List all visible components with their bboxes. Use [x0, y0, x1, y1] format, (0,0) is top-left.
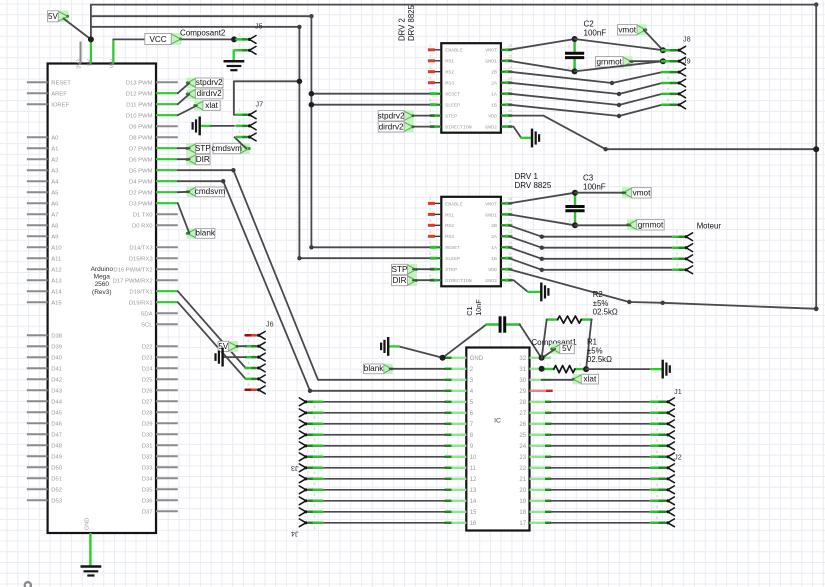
op-amp U2 DRV2 DRV8825 body	[428, 43, 512, 133]
svg-text:A15: A15	[51, 301, 62, 307]
svg-text:1B: 1B	[491, 256, 497, 262]
connector Moteur pin 3	[673, 252, 693, 263]
svg-text:1: 1	[656, 395, 658, 399]
connector J4 pin 4	[299, 486, 322, 497]
svg-text:5: 5	[314, 416, 316, 420]
node bend 1B	[617, 114, 621, 118]
connector Moteur pin 4	[673, 263, 693, 274]
svg-text:9: 9	[509, 120, 511, 124]
text J1 designator	[674, 387, 682, 396]
svg-text:DIRECTION: DIRECTION	[445, 278, 471, 284]
label VCC	[145, 33, 182, 45]
svg-text:13: 13	[508, 76, 512, 80]
connector J1 pin 5	[651, 439, 675, 450]
wire R2 right to R1 right node	[586, 320, 591, 370]
wire 5V label to junction	[64, 19, 91, 40]
label stpdrv2 at DRV2 STEP	[378, 110, 415, 121]
svg-text:9: 9	[509, 274, 511, 278]
connector J3 pin 4	[299, 420, 322, 431]
svg-text:15: 15	[508, 208, 512, 212]
svg-text:32: 32	[519, 356, 526, 362]
wire 5V riser	[90, 5, 92, 40]
svg-text:02.5kΩ: 02.5kΩ	[587, 355, 612, 364]
svg-text:1: 1	[314, 460, 316, 464]
connector J3 pin 5	[299, 409, 322, 420]
Arduino VIN top pin	[109, 39, 115, 68]
svg-text:D0 RX0: D0 RX0	[132, 224, 153, 230]
svg-text:grnmot: grnmot	[638, 220, 664, 229]
svg-text:D52: D52	[51, 488, 62, 494]
pin number C3	[568, 198, 570, 223]
svg-text:3: 3	[676, 252, 678, 256]
text J5 designator	[255, 22, 263, 31]
svg-text:GND: GND	[84, 518, 90, 530]
svg-text:14: 14	[508, 219, 512, 223]
connector J9 pin 2	[662, 65, 686, 76]
svg-text:2: 2	[248, 339, 250, 343]
node bend D4a	[221, 179, 225, 183]
svg-text:ENABLE: ENABLE	[445, 48, 463, 54]
svg-text:1: 1	[568, 45, 570, 49]
wire R2 left to pin32 node	[542, 320, 547, 359]
svg-text:STEP: STEP	[445, 114, 457, 120]
svg-text:A6: A6	[51, 202, 59, 208]
svg-text:D5 PWM: D5 PWM	[129, 169, 153, 175]
svg-text:1A: 1A	[491, 92, 497, 98]
svg-text:12: 12	[508, 241, 512, 245]
ground symbol DRV2 GND2	[532, 129, 539, 148]
wire D10 to xlat	[178, 106, 197, 116]
svg-text:J2: J2	[674, 453, 682, 462]
svg-text:STP: STP	[195, 144, 211, 153]
svg-text:6: 6	[656, 516, 658, 520]
svg-text:GND2: GND2	[485, 278, 497, 284]
svg-text:ENABLE: ENABLE	[445, 201, 463, 207]
svg-text:VMOT: VMOT	[485, 48, 497, 54]
node bend M2	[540, 246, 544, 250]
svg-text:±5%: ±5%	[587, 346, 603, 355]
svg-text:13: 13	[470, 488, 477, 494]
svg-text:RESET: RESET	[445, 92, 460, 98]
svg-text:3: 3	[239, 130, 241, 134]
node bend line B corner top	[309, 14, 313, 18]
wire DRV1 VDD to right edge	[509, 269, 816, 309]
svg-text:GND2: GND2	[485, 125, 497, 131]
svg-text:21: 21	[519, 477, 526, 483]
svg-text:3: 3	[314, 438, 316, 442]
wire D4 to IC pin4	[178, 181, 445, 391]
label blank at IC pin2	[364, 364, 394, 374]
IC left pin leads	[445, 356, 484, 527]
Arduino Mega 2560 (Rev3) title	[91, 266, 114, 296]
svg-text:2A: 2A	[491, 234, 497, 240]
connector J6 pin 6	[246, 383, 266, 394]
op-amp U1 Arduino Mega 2560 body	[48, 64, 156, 534]
svg-text:3: 3	[429, 65, 431, 69]
svg-text:D28: D28	[142, 411, 154, 417]
node junction at Arduino 5V	[88, 36, 94, 42]
svg-text:30: 30	[519, 378, 526, 384]
text DRV 2 / DRV 8825 designator (rotated)	[398, 5, 417, 41]
svg-text:6: 6	[429, 98, 431, 102]
svg-text:1: 1	[667, 54, 669, 58]
svg-text:A14: A14	[51, 290, 62, 296]
svg-text:A12: A12	[51, 268, 61, 274]
svg-text:D11 PWM: D11 PWM	[126, 103, 152, 109]
svg-text:MS2: MS2	[445, 223, 454, 229]
label cmdsvm at D2	[186, 187, 226, 197]
node bend M3	[540, 257, 544, 261]
wire net-C from 5V riser to DRV1 SLEEP	[91, 27, 434, 258]
svg-text:VDD: VDD	[488, 114, 497, 120]
svg-text:D12 PWM: D12 PWM	[126, 92, 153, 98]
connector J9 pin 5	[662, 98, 686, 109]
text Composant1	[531, 338, 577, 347]
svg-text:2: 2	[314, 449, 316, 453]
svg-text:xlat: xlat	[205, 101, 218, 110]
svg-text:D1 TX0: D1 TX0	[133, 213, 154, 219]
wire D7 to STP	[178, 147, 190, 149]
svg-text:5: 5	[667, 98, 669, 102]
svg-text:R1: R1	[587, 338, 597, 347]
svg-text:3: 3	[667, 76, 669, 80]
label STP at DRV1 STEP	[392, 264, 418, 275]
connector J7 pin 2	[237, 119, 257, 130]
svg-text:5: 5	[248, 372, 250, 376]
connector J2 pin 5	[651, 505, 675, 516]
svg-text:20: 20	[519, 488, 526, 494]
svg-text:D10 PWM: D10 PWM	[126, 114, 153, 120]
pin number C2	[568, 45, 570, 70]
svg-text:2: 2	[429, 54, 431, 58]
svg-text:22: 22	[519, 466, 526, 472]
wires J3/J4 to IC pins 5-16	[322, 402, 444, 523]
svg-text:14: 14	[470, 499, 477, 505]
svg-text:Arduino: Arduino	[91, 266, 114, 273]
wire C1 right to pin32 node	[520, 325, 542, 359]
wire C2 bottom to J9 pin1	[575, 61, 663, 71]
svg-text:A2: A2	[51, 158, 58, 164]
svg-text:100nF: 100nF	[584, 29, 607, 38]
svg-text:11: 11	[508, 252, 512, 256]
node junction J9 pin1	[660, 58, 666, 64]
label dirdrv2 at DRV2 DIRECTION	[378, 121, 414, 132]
svg-text:D36: D36	[142, 499, 154, 505]
node junction J8 pin	[660, 47, 666, 53]
wire DRV2 2B to J9 pin2	[509, 72, 662, 83]
connector J2 pin 1	[651, 461, 675, 472]
svg-text:D9 PWM: D9 PWM	[129, 125, 153, 131]
svg-text:8: 8	[429, 120, 431, 124]
capacitor C1	[486, 316, 519, 332]
wire D11 to dirdrv2	[178, 94, 190, 104]
node junction C2 top	[572, 36, 578, 42]
svg-text:6: 6	[429, 252, 431, 256]
text J9 designator	[683, 57, 691, 66]
capacitor C3	[565, 193, 584, 226]
svg-text:DIR: DIR	[196, 155, 210, 164]
connector J2 pin 4	[651, 494, 675, 505]
svg-text:2: 2	[656, 406, 658, 410]
text J4 designator (rotated)	[291, 530, 299, 539]
svg-text:5: 5	[656, 439, 658, 443]
text J6 designator	[266, 320, 274, 329]
svg-text:3: 3	[248, 350, 250, 354]
svg-text:SCL: SCL	[141, 323, 153, 329]
text Composant2	[180, 29, 226, 38]
wire R1 right to ground	[586, 368, 651, 370]
svg-text:7: 7	[429, 263, 431, 267]
label STP at D7	[185, 143, 211, 154]
wire J5 pin2 to ground	[234, 50, 237, 61]
svg-text:SDA: SDA	[140, 312, 152, 318]
connector J6 pin 1	[246, 328, 266, 339]
text DRV 1 / DRV 8825 designator	[515, 172, 552, 190]
connector Moteur pin 1	[673, 230, 693, 241]
wire 5V label to pin32 node	[542, 349, 556, 358]
svg-text:26: 26	[519, 422, 526, 428]
node junction R1 right	[583, 366, 589, 372]
wire 5V label to J6 pin2	[237, 345, 246, 347]
capacitor C2	[565, 39, 584, 71]
ground symbol near IC GND	[381, 337, 388, 356]
ground symbol R1	[663, 360, 670, 379]
connector J7 pin 3	[237, 130, 257, 141]
node bend at line B corner	[309, 245, 313, 249]
svg-text:1: 1	[239, 108, 241, 112]
svg-text:D31: D31	[142, 444, 153, 450]
svg-text:6: 6	[314, 405, 316, 409]
svg-text:5V: 5V	[87, 59, 93, 66]
svg-text:D47: D47	[51, 433, 62, 439]
svg-text:Moteur: Moteur	[697, 222, 722, 231]
wire DRV2 GND2 to ground	[509, 127, 531, 138]
svg-text:Mega: Mega	[94, 274, 111, 281]
connector J4 pin 3	[299, 497, 322, 508]
svg-text:5V: 5V	[562, 344, 572, 353]
node junction C2 bottom	[572, 68, 578, 74]
svg-text:A7: A7	[51, 213, 58, 219]
svg-text:D46: D46	[51, 422, 63, 428]
connector J1 pin 1	[651, 395, 675, 406]
svg-text:1: 1	[239, 32, 241, 36]
svg-text:29: 29	[519, 389, 526, 395]
svg-text:D35: D35	[142, 488, 154, 494]
svg-text:MS2: MS2	[445, 70, 454, 76]
svg-text:5: 5	[429, 87, 431, 91]
svg-text:31: 31	[519, 367, 526, 373]
svg-text:4: 4	[429, 230, 431, 234]
svg-text:stpdrv2: stpdrv2	[196, 78, 223, 87]
label 5V at Composant1	[550, 344, 574, 354]
connector J9 pin 4	[662, 87, 686, 98]
svg-text:DRV 2: DRV 2	[398, 18, 407, 41]
svg-text:6: 6	[656, 450, 658, 454]
svg-text:2: 2	[667, 65, 669, 69]
svg-text:D19/RX1: D19/RX1	[129, 301, 153, 307]
svg-text:DIR: DIR	[392, 276, 406, 285]
svg-text:17: 17	[519, 521, 526, 527]
svg-text:15: 15	[508, 54, 512, 58]
svg-text:D29: D29	[142, 422, 153, 428]
wire cmdsvm to J7 pin3	[235, 137, 247, 148]
label DIR at D6	[185, 154, 210, 165]
svg-text:12: 12	[508, 87, 512, 91]
svg-text:5V: 5V	[48, 12, 58, 21]
node bend line A corner	[814, 2, 818, 6]
svg-text:12: 12	[470, 477, 477, 483]
Arduino right pin stubs D13-D37	[113, 81, 178, 516]
wire branch line C to J7 pin1	[234, 81, 300, 115]
svg-text:D43: D43	[51, 389, 63, 395]
connector J5 pin 1	[236, 32, 256, 43]
node bend M1	[540, 235, 544, 239]
svg-text:2: 2	[568, 219, 570, 223]
wire grnmot label to J9 pin1	[630, 60, 663, 62]
svg-text:D50: D50	[51, 466, 63, 472]
svg-text:DRV 1: DRV 1	[515, 172, 539, 181]
svg-text:D40: D40	[51, 356, 63, 362]
label cmdsvm right of STP	[211, 143, 250, 154]
connector Moteur pin 2	[673, 241, 693, 252]
svg-text:MS1: MS1	[445, 212, 454, 218]
svg-text:A0: A0	[51, 136, 59, 142]
svg-text:(Rev3): (Rev3)	[92, 289, 112, 296]
connector J6 pin 2	[246, 339, 266, 350]
svg-text:DRV 8825: DRV 8825	[515, 181, 552, 190]
svg-text:2A: 2A	[491, 81, 497, 87]
connector J9 pin 3	[662, 76, 686, 87]
node bend VDD1a	[627, 300, 631, 304]
svg-text:A11: A11	[51, 257, 61, 263]
Arduino left pin stubs A0-A15 D38-D53	[27, 81, 71, 505]
wire net-B from 5V riser to DRV resets	[91, 16, 434, 247]
svg-text:1: 1	[248, 328, 250, 332]
svg-text:D39: D39	[51, 345, 62, 351]
node bend M4	[540, 268, 544, 272]
svg-text:2: 2	[314, 515, 316, 519]
node bend at line C bottom corner	[297, 256, 301, 260]
node bend D5	[231, 168, 235, 172]
svg-text:GND1: GND1	[485, 212, 497, 218]
svg-text:4: 4	[248, 361, 250, 365]
text R2 value	[593, 290, 618, 317]
wire DRV2 GND1 to C2 bottom	[509, 61, 575, 72]
wire stpdrv2 label to DRV2 STEP	[413, 115, 434, 117]
wire DRV1 2A to Moteur pin2	[509, 236, 673, 247]
node junction C3 top	[572, 190, 578, 196]
svg-text:D32: D32	[142, 455, 153, 461]
wire D18 to J6 pin4	[178, 291, 246, 368]
wire DRV1 GND1 to C3 bottom	[509, 214, 575, 225]
wire D3 to blank	[178, 203, 190, 233]
text J7 designator	[256, 100, 264, 109]
svg-text:VMOT: VMOT	[485, 201, 497, 207]
node junction VCC / J5 pin1	[231, 36, 237, 42]
label grnmot (DRV1)	[626, 219, 664, 230]
svg-text:6: 6	[248, 383, 250, 387]
svg-text:STEP: STEP	[445, 267, 457, 273]
svg-text:R2: R2	[593, 290, 603, 299]
wire DRV1 1B to Moteur pin4	[509, 258, 673, 270]
svg-text:A10: A10	[51, 246, 62, 252]
svg-text:19: 19	[519, 499, 526, 505]
svg-text:MS3: MS3	[445, 234, 454, 240]
node bend 2B	[610, 81, 614, 85]
node bend at line C top corner	[297, 25, 301, 29]
svg-text:2: 2	[239, 43, 241, 47]
connector J7 pin 1	[237, 108, 257, 119]
wire D12 to stpdrv2	[178, 83, 190, 93]
svg-text:grnmot: grnmot	[596, 57, 622, 66]
connector J6 pin 4	[246, 361, 266, 372]
node junction line B / DRV2 SLEEP	[309, 102, 315, 108]
connector J4 pin 6	[299, 464, 322, 475]
wire branch line B to DRV2 SLEEP	[311, 104, 433, 106]
svg-text:18: 18	[519, 510, 526, 516]
node junction C3 bottom	[572, 222, 578, 228]
svg-text:D49: D49	[51, 455, 62, 461]
svg-text:D51: D51	[51, 477, 62, 483]
svg-text:27: 27	[519, 411, 526, 417]
Arduino 5V top pin	[87, 39, 93, 65]
svg-text:D23: D23	[142, 356, 154, 362]
wire IC GND to ground	[389, 346, 445, 357]
connector J2 pin 2	[651, 472, 675, 483]
svg-text:1: 1	[547, 363, 549, 367]
svg-text:4: 4	[429, 76, 431, 80]
connector J1 pin 4	[651, 428, 675, 439]
svg-text:4: 4	[656, 494, 658, 498]
svg-text:D30: D30	[142, 433, 154, 439]
svg-text:10: 10	[470, 455, 477, 461]
ground symbol below Arduino	[81, 567, 102, 576]
svg-text:4: 4	[667, 87, 669, 91]
wire ground to J6 pin3	[223, 356, 245, 358]
svg-text:D18/TX1: D18/TX1	[129, 290, 152, 296]
label 5V at J6	[218, 341, 239, 352]
svg-text:10: 10	[508, 263, 512, 267]
wire STP label to DRV1 STEP	[413, 268, 434, 270]
svg-text:2560: 2560	[95, 281, 110, 288]
text J2 designator	[674, 453, 682, 462]
svg-text:1: 1	[676, 230, 678, 234]
svg-text:7: 7	[429, 109, 431, 113]
svg-text:DRV 8825: DRV 8825	[407, 5, 416, 41]
svg-text:Composant2: Composant2	[180, 29, 226, 38]
svg-text:C2: C2	[584, 20, 595, 29]
svg-text:1B: 1B	[491, 103, 497, 109]
svg-text:28: 28	[519, 400, 526, 406]
svg-text:1: 1	[667, 43, 669, 47]
svg-text:D2 PWM: D2 PWM	[129, 191, 153, 197]
svg-text:3: 3	[314, 504, 316, 508]
node bend 1A	[617, 103, 621, 107]
node bend VDD	[603, 147, 607, 151]
Arduino GND bottom pin	[84, 518, 90, 567]
wire VIN to VCC run	[113, 38, 234, 40]
svg-text:D44: D44	[51, 400, 63, 406]
svg-text:IC: IC	[494, 418, 501, 425]
svg-text:16: 16	[470, 521, 477, 527]
connector J1 pin 2	[651, 406, 675, 417]
svg-text:A1: A1	[51, 147, 58, 153]
svg-text:2B: 2B	[491, 70, 497, 76]
label xlat at IC pin30	[572, 374, 599, 384]
connector J9 pin 1	[662, 54, 686, 65]
label 5V top-left	[48, 11, 70, 23]
label vmot (DRV2)	[618, 24, 648, 35]
